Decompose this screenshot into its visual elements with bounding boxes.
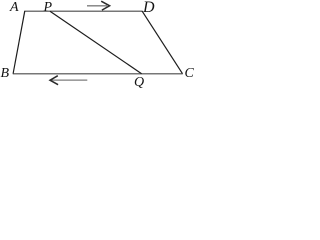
label C [185, 67, 194, 81]
label Q [134, 76, 144, 90]
top arrow (points right) [87, 1, 110, 10]
bottom arrow (points left) [50, 76, 87, 85]
label B [1, 67, 10, 81]
side AD (top edge) [25, 10, 143, 12]
side AB (left edge) [13, 11, 25, 74]
label P [44, 1, 53, 15]
label A [10, 1, 19, 15]
label D [143, 0, 155, 16]
segment PQ [50, 11, 142, 73]
side BC (bottom edge) [13, 73, 183, 75]
side DC (right edge) [142, 11, 183, 74]
